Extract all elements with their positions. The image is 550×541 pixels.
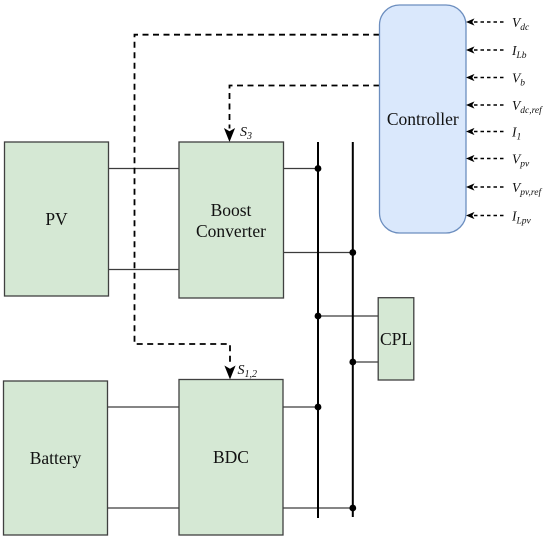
junction bus1/BDC (315, 404, 322, 411)
wire PV to Boost bottom (108, 269, 179, 271)
svg-text:Vdc,ref: Vdc,ref (512, 98, 543, 116)
input Vdc,ref (466, 98, 543, 116)
svg-text:I1: I1 (511, 125, 521, 143)
wire Battery to BDC bottom (108, 507, 180, 509)
svg-text:ILpv: ILpv (511, 209, 532, 227)
wire BDC to bus2 (283, 507, 353, 509)
wire CPL to bus1 (318, 315, 378, 317)
wire PV to Boost top (108, 168, 179, 170)
wire Boost to bus2 (283, 252, 353, 254)
svg-text:CPL: CPL (380, 329, 412, 349)
block Controller (380, 5, 467, 233)
block PV (5, 142, 109, 296)
svg-text:Converter: Converter (196, 221, 266, 241)
block BDC (179, 380, 283, 536)
input Vb (466, 71, 525, 89)
input Vpv (466, 152, 530, 170)
input Vdc (466, 15, 530, 33)
junction bus2/boost (349, 249, 356, 256)
input ILb (466, 43, 527, 61)
junction bus2/CPL (349, 359, 356, 366)
input I1 (466, 125, 521, 143)
svg-text:Vpv: Vpv (512, 152, 530, 170)
arrowhead S1,2 (224, 366, 235, 380)
svg-text:ILb: ILb (511, 43, 527, 61)
svg-text:Controller: Controller (387, 109, 459, 129)
input Vpv,ref (466, 180, 542, 198)
svg-text:Vpv,ref: Vpv,ref (512, 180, 542, 198)
dashed control path S3 (controller to Boost) (230, 86, 380, 129)
bus line 2 (DC bus right) (352, 142, 354, 517)
svg-text:Vdc: Vdc (512, 15, 530, 33)
junction bus2/BDC (349, 505, 356, 512)
bus line 1 (DC bus left) (317, 142, 319, 518)
arrowhead S3 (224, 128, 235, 142)
wire Battery to BDC top (108, 406, 180, 408)
junction bus1/boost (315, 165, 322, 172)
svg-text:S1,2: S1,2 (238, 363, 258, 380)
svg-text:Vb: Vb (512, 71, 525, 89)
block Boost Converter (179, 142, 284, 298)
block CPL (378, 298, 414, 380)
svg-text:Battery: Battery (30, 448, 82, 468)
wire Boost to bus1 top (283, 168, 318, 170)
svg-text:BDC: BDC (213, 447, 249, 467)
wire CPL to bus2 (353, 361, 378, 363)
wire BDC to bus1 (283, 406, 318, 408)
block Battery (4, 381, 108, 535)
junction bus1/CPL (315, 313, 322, 320)
svg-text:Boost: Boost (211, 200, 252, 220)
svg-text:S3: S3 (240, 125, 252, 142)
input ILpv (466, 209, 532, 227)
dashed control path S1,2 (controller to BDC) (135, 35, 380, 366)
svg-text:PV: PV (45, 209, 68, 229)
